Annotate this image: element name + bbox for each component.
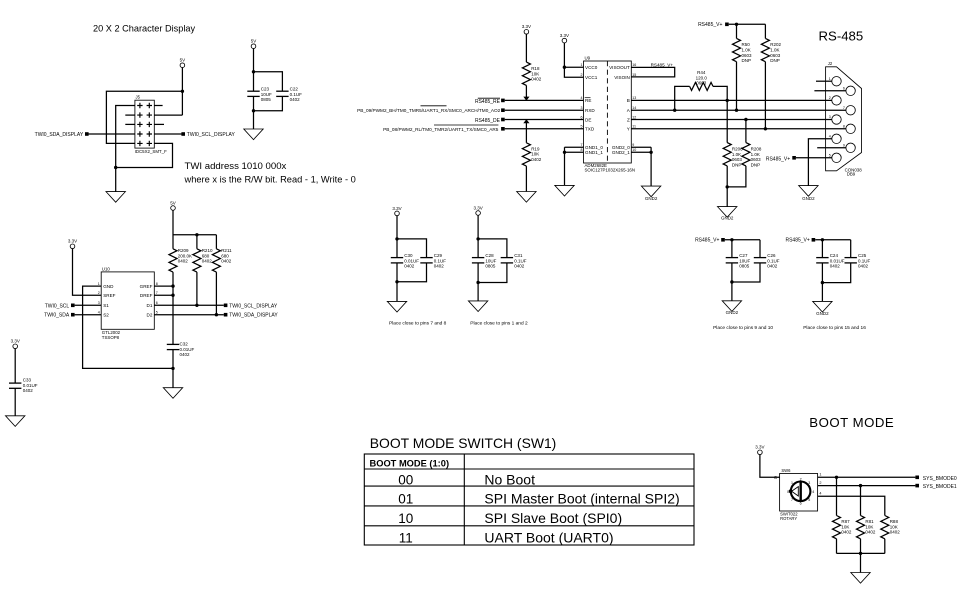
ground GND2 (DB9 pin4) xyxy=(799,186,818,201)
junction GND1 xyxy=(563,151,566,154)
svg-text:3.3V: 3.3V xyxy=(755,445,764,450)
wire RXD row xyxy=(505,109,584,111)
svg-text:R210: R210 xyxy=(202,248,213,253)
svg-text:J2: J2 xyxy=(828,61,833,66)
svg-text:0805: 0805 xyxy=(739,264,750,269)
svg-text:RS485_V+: RS485_V+ xyxy=(766,156,790,162)
capacitor C28 10UF 0805 xyxy=(472,253,497,269)
svg-text:4: 4 xyxy=(819,492,821,496)
svg-text:7: 7 xyxy=(156,291,158,295)
svg-text:10K: 10K xyxy=(531,71,539,76)
svg-text:R44: R44 xyxy=(697,70,706,75)
svg-text:GND2: GND2 xyxy=(721,216,734,221)
node RS485_DE xyxy=(475,118,505,125)
node TWI0_SCL_DISPLAY (U10) xyxy=(224,303,278,309)
svg-text:20 X 2 Character Display: 20 X 2 Character Display xyxy=(93,24,196,34)
wire B row to DB9 pin2 xyxy=(631,99,832,101)
junction R81/pin2 xyxy=(859,484,862,487)
IC U10 GTL2002 TSSOP8 xyxy=(98,266,158,340)
wire 3.3V to switch C pin xyxy=(760,455,780,478)
wire C23 bottom xyxy=(253,96,255,129)
svg-text:4: 4 xyxy=(829,135,831,139)
junction arrow R18/RE xyxy=(523,97,529,101)
wire D2 to TWI0_SDA_DISPLAY xyxy=(154,314,224,316)
svg-text:GND2: GND2 xyxy=(645,196,658,201)
junction 5V node xyxy=(181,90,184,93)
node RS485_V+ (DB9 pin5) xyxy=(766,156,796,162)
ground (C28/C31) xyxy=(468,301,487,312)
resistor R208 1.0K 0603 DNP xyxy=(742,143,762,168)
ground GND2 (C24/C25) xyxy=(813,301,832,315)
svg-text:DE: DE xyxy=(585,117,591,122)
svg-text:U9: U9 xyxy=(585,56,591,61)
wire J5 pin2 stub xyxy=(154,105,162,107)
svg-text:0402: 0402 xyxy=(290,97,301,102)
junction bottom bus xyxy=(859,552,862,555)
wire C28 bottom to ground xyxy=(477,263,479,301)
switch SW6 rotary SWIT022 xyxy=(774,468,822,521)
svg-text:1: 1 xyxy=(829,77,831,81)
wire Y row to DB9 pin8 xyxy=(631,128,846,130)
resistor R211 680 0402 xyxy=(212,248,232,272)
svg-text:2: 2 xyxy=(800,478,802,482)
junction gnd rail xyxy=(114,166,117,169)
wire 5V left branch xyxy=(106,91,182,143)
svg-text:0.01UF: 0.01UF xyxy=(180,347,195,352)
svg-text:PB_08/PWM2_RL/TM0_TMR2/UART1_T: PB_08/PWM2_RL/TM0_TMR2/UART1_TX/SMC0_AR5 xyxy=(383,127,499,132)
capacitor C32 0.01UF 0402 xyxy=(167,342,195,358)
wire VISOOUT/VISOIN loop RS485_V+ xyxy=(631,67,674,77)
svg-text:10UF: 10UF xyxy=(739,258,750,263)
wire RE row xyxy=(505,99,584,101)
ground GND2 (R206/R208) xyxy=(718,207,737,221)
svg-text:VISOIN: VISOIN xyxy=(614,75,630,80)
svg-text:SW6: SW6 xyxy=(781,468,791,473)
junction C30 top xyxy=(395,237,398,240)
wire V+ to caps xyxy=(725,240,760,258)
svg-text:TXD: TXD xyxy=(585,127,595,132)
node SYS_BMODE0 xyxy=(915,476,957,482)
svg-text:10K: 10K xyxy=(841,524,849,529)
svg-text:C29: C29 xyxy=(434,253,443,258)
wire Z to R208 xyxy=(745,120,747,143)
wire C27 bottom to ground xyxy=(731,263,733,301)
svg-text:RS485_DE: RS485_DE xyxy=(475,118,501,124)
wire GND2 pins to ground xyxy=(631,147,651,186)
ground (C33) xyxy=(6,416,25,427)
svg-text:J5: J5 xyxy=(136,95,141,100)
node RS485_V+ (C27/C26) xyxy=(695,238,725,244)
node TWI0_SCL_DISPLAY xyxy=(181,132,235,138)
svg-text:0402: 0402 xyxy=(404,264,415,269)
power 5V (C23/C22) xyxy=(251,39,257,49)
wire to C31 xyxy=(478,239,507,258)
power 3.3V (C30/C29) xyxy=(392,206,401,216)
svg-text:R81: R81 xyxy=(865,519,874,524)
svg-text:R208: R208 xyxy=(751,147,762,152)
connector J2 CON038 DB9 xyxy=(826,61,863,176)
svg-text:5: 5 xyxy=(808,498,810,502)
junction R44/B xyxy=(726,99,729,102)
svg-text:10UF: 10UF xyxy=(485,258,496,263)
power 5V (pullups) xyxy=(170,200,176,210)
wire 5V to caps xyxy=(253,49,255,92)
svg-text:C24: C24 xyxy=(830,253,839,258)
wire J5 pin10 to gnd rail xyxy=(116,143,173,167)
svg-text:ROTARY: ROTARY xyxy=(780,516,797,521)
wire C22 bottom xyxy=(254,96,283,110)
svg-text:6: 6 xyxy=(156,301,158,305)
svg-text:5V: 5V xyxy=(180,58,186,63)
wire C29 bottom xyxy=(397,263,427,282)
svg-text:10K: 10K xyxy=(890,524,898,529)
svg-text:RS485_V+: RS485_V+ xyxy=(695,238,719,244)
wire J5 pin1 to gnd rail xyxy=(116,106,135,168)
junction R87/pin1 xyxy=(835,476,838,479)
junction C28 top xyxy=(476,237,479,240)
svg-text:6: 6 xyxy=(843,87,845,91)
svg-text:BOOT MODE SWITCH (SW1): BOOT MODE SWITCH (SW1) xyxy=(370,435,557,451)
svg-text:C33: C33 xyxy=(23,378,32,383)
svg-text:0402: 0402 xyxy=(202,259,213,264)
wire R210 bottom xyxy=(196,272,198,305)
wire GND1 pins to ground xyxy=(565,147,584,185)
node PB_09 net xyxy=(357,106,505,113)
svg-text:R88: R88 xyxy=(890,519,899,524)
capacitor C27 10UF 0805 xyxy=(726,253,751,269)
junction C27 bottom xyxy=(730,280,733,283)
svg-text:where x is the R/W bit. Read -: where x is the R/W bit. Read - 1, Write … xyxy=(184,175,356,185)
wire V+ to caps xyxy=(815,240,851,258)
ground (C23/C22) xyxy=(244,129,263,140)
svg-text:3.3V: 3.3V xyxy=(473,205,482,210)
svg-text:TWI0_SCL_DISPLAY: TWI0_SCL_DISPLAY xyxy=(229,303,278,309)
wire U10 GND loop to ground xyxy=(83,286,173,368)
svg-text:1.0K: 1.0K xyxy=(751,152,760,157)
svg-text:PB_09/PWM2_BH/TM0_TMR5/UART1_R: PB_09/PWM2_BH/TM0_TMR5/UART1_RX/SMC0_ARC… xyxy=(357,108,501,113)
svg-text:5V: 5V xyxy=(170,200,176,205)
wire J5 pin8 to TWI0_SCL_DISPLAY xyxy=(154,133,181,135)
connector J5 IDC5X2_SMT_F xyxy=(135,95,168,154)
svg-text:D2: D2 xyxy=(147,313,153,318)
junction DREF xyxy=(171,294,174,297)
svg-text:1.0K: 1.0K xyxy=(770,48,779,53)
svg-text:R19: R19 xyxy=(531,146,540,151)
junction C27 top xyxy=(730,238,733,241)
svg-text:Y: Y xyxy=(627,127,630,132)
svg-text:0402: 0402 xyxy=(434,264,445,269)
power 5V (J5) xyxy=(180,58,186,68)
svg-text:6: 6 xyxy=(800,502,802,506)
svg-text:R206: R206 xyxy=(732,147,743,152)
junction R210/D1 xyxy=(195,304,198,307)
svg-text:1: 1 xyxy=(98,282,100,286)
svg-text:DNP: DNP xyxy=(732,163,742,168)
svg-text:12: 12 xyxy=(632,115,636,119)
wire R209 to GREF/DREF/C32 xyxy=(172,272,174,344)
svg-text:0603: 0603 xyxy=(742,53,753,58)
wire pin1 to R87 xyxy=(836,477,838,515)
svg-text:GND2: GND2 xyxy=(802,196,815,201)
node PB_08 net xyxy=(383,125,505,132)
ground GND2 (C27/C26) xyxy=(722,301,741,315)
svg-text:7: 7 xyxy=(843,106,845,110)
power 3.3V (U10 SREF) xyxy=(68,239,77,249)
wire TWI0_SCL to S1 xyxy=(75,304,102,306)
junction C30 bottom xyxy=(395,280,398,283)
wire D1 to TWI0_SCL_DISPLAY xyxy=(154,304,224,306)
junction C28 bottom xyxy=(476,281,479,284)
svg-text:0603: 0603 xyxy=(751,157,762,162)
svg-text:Place close to pins 1 and 2: Place close to pins 1 and 2 xyxy=(470,321,528,327)
svg-text:DREF: DREF xyxy=(140,293,153,298)
svg-text:9: 9 xyxy=(843,144,845,148)
svg-text:TWI0_SDA_DISPLAY: TWI0_SDA_DISPLAY xyxy=(35,132,84,138)
svg-text:3: 3 xyxy=(829,115,831,119)
svg-text:7: 7 xyxy=(791,498,793,502)
wire pin2 to R81 xyxy=(860,486,862,516)
wire C25 bottom xyxy=(822,263,850,283)
svg-text:C27: C27 xyxy=(739,253,748,258)
power 3.3V (R18) xyxy=(522,24,531,34)
svg-text:4: 4 xyxy=(581,96,583,100)
svg-text:SPI Slave Boot (SPI0): SPI Slave Boot (SPI0) xyxy=(484,510,622,526)
wire R50 to A row xyxy=(736,62,738,110)
svg-text:0: 0 xyxy=(787,490,789,494)
junction GND2 xyxy=(649,151,652,154)
svg-text:RXD: RXD xyxy=(585,108,595,113)
node TWI0_SCL xyxy=(45,303,75,309)
svg-text:3.3V: 3.3V xyxy=(392,206,401,211)
junction V+ rail xyxy=(735,23,738,26)
svg-text:C23: C23 xyxy=(261,87,270,92)
svg-text:RE: RE xyxy=(585,98,591,103)
wire C30 bottom to ground xyxy=(396,263,398,302)
svg-text:16: 16 xyxy=(632,63,636,67)
svg-text:0402: 0402 xyxy=(890,530,901,535)
svg-text:0402: 0402 xyxy=(841,530,852,535)
IC U9 ADM2682E isolated RS-485 transceiver xyxy=(581,56,637,173)
wire DE row xyxy=(505,119,584,121)
capacitor C31 0.1UF 0402 xyxy=(501,253,527,269)
svg-text:10K: 10K xyxy=(531,152,539,157)
svg-text:TWI0_SCL: TWI0_SCL xyxy=(45,303,70,309)
resistor R210 680 0402 xyxy=(193,248,213,272)
wire R211 bottom xyxy=(215,272,217,315)
junction arrow R19/DE xyxy=(523,119,529,123)
svg-text:0.01UF: 0.01UF xyxy=(830,258,845,263)
svg-text:B: B xyxy=(627,98,630,103)
svg-text:0402: 0402 xyxy=(767,264,778,269)
node TWI0_SDA_DISPLAY xyxy=(35,132,89,138)
ground (U10) xyxy=(163,388,182,399)
wire RS485_V+ to pin5 xyxy=(796,157,832,159)
wire 3.3V to C30 xyxy=(396,216,398,258)
node RS485_V+ (C24/C25) xyxy=(785,238,815,244)
svg-text:8: 8 xyxy=(156,282,158,286)
svg-text:GREF: GREF xyxy=(140,284,153,289)
junction GREF xyxy=(171,284,174,287)
svg-text:0402: 0402 xyxy=(531,77,542,82)
wire DE to R19 xyxy=(525,120,527,143)
capacitor C24 0.01UF 0402 xyxy=(816,253,845,269)
svg-text:DNP: DNP xyxy=(751,163,761,168)
svg-text:7: 7 xyxy=(581,143,583,147)
svg-text:S2: S2 xyxy=(103,313,109,318)
svg-text:VCC0: VCC0 xyxy=(585,65,598,70)
svg-text:TWI address 1010 000x: TWI address 1010 000x xyxy=(185,161,287,172)
svg-text:Place close to pins 15 and 16: Place close to pins 15 and 16 xyxy=(803,325,866,331)
svg-text:TWI0_SDA_DISPLAY: TWI0_SDA_DISPLAY xyxy=(229,313,278,319)
wire J5 pin3 stub xyxy=(125,114,135,116)
svg-text:0805: 0805 xyxy=(261,97,272,102)
svg-text:Place close to pins 9 and 10: Place close to pins 9 and 10 xyxy=(713,325,773,331)
resistor R18 10K 0402 xyxy=(522,62,541,85)
svg-text:2: 2 xyxy=(819,481,821,485)
svg-text:8: 8 xyxy=(843,125,845,129)
svg-text:0402: 0402 xyxy=(531,157,542,162)
svg-text:BOOT MODE: BOOT MODE xyxy=(809,415,894,430)
svg-text:SYS_BMODE1: SYS_BMODE1 xyxy=(923,484,957,490)
junction R44/A xyxy=(673,109,676,112)
svg-text:GND2: GND2 xyxy=(816,311,829,316)
svg-text:Place close to pins 7 and 8: Place close to pins 7 and 8 xyxy=(389,321,447,327)
power 3.3V (SW) xyxy=(755,445,764,455)
svg-text:R50: R50 xyxy=(742,42,751,47)
svg-text:DNP: DNP xyxy=(742,58,752,63)
wire J5 pin6 stub xyxy=(154,123,164,125)
junction R202/Y xyxy=(764,127,767,130)
svg-text:01: 01 xyxy=(398,492,413,507)
svg-text:R209: R209 xyxy=(178,248,189,253)
wire J5 pin7 to TWI0_SDA_DISPLAY xyxy=(88,133,134,135)
svg-text:UART Boot (UART0): UART Boot (UART0) xyxy=(484,530,613,546)
svg-text:Z: Z xyxy=(627,117,630,122)
svg-text:10K: 10K xyxy=(865,524,873,529)
svg-text:No Boot: No Boot xyxy=(484,471,535,487)
junction VCC0 xyxy=(563,66,566,69)
svg-text:0603: 0603 xyxy=(732,157,743,162)
svg-text:1: 1 xyxy=(819,473,821,477)
svg-text:10: 10 xyxy=(398,511,413,526)
wire R211 top xyxy=(215,235,217,249)
svg-text:1: 1 xyxy=(581,63,583,67)
svg-text:3.3V: 3.3V xyxy=(560,33,569,38)
wire DB9 pin6 stub xyxy=(814,90,846,92)
resistor R206 1.0K 0603 DNP xyxy=(723,143,743,168)
svg-text:4: 4 xyxy=(812,490,814,494)
wire 5V pullup bus xyxy=(172,210,174,249)
svg-text:11: 11 xyxy=(632,125,636,129)
wire R210 top xyxy=(196,235,198,249)
node SYS_BMODE1 xyxy=(915,484,957,490)
svg-text:680: 680 xyxy=(221,253,229,258)
wire C24 bottom to ground xyxy=(821,263,823,302)
svg-text:0402: 0402 xyxy=(865,530,876,535)
svg-text:120.0: 120.0 xyxy=(696,75,708,80)
svg-text:0402: 0402 xyxy=(178,259,189,264)
ground (boot resistors) xyxy=(851,573,870,584)
svg-text:2: 2 xyxy=(98,291,100,295)
svg-text:C31: C31 xyxy=(514,253,523,258)
svg-text:13: 13 xyxy=(632,96,636,100)
wire TWI0_SDA to S2 xyxy=(75,314,102,316)
svg-text:3: 3 xyxy=(98,301,100,305)
svg-text:5V: 5V xyxy=(251,39,257,44)
svg-text:DB9: DB9 xyxy=(847,171,856,176)
resistor R202 1.0K 0603 DNP xyxy=(761,38,781,63)
svg-text:4: 4 xyxy=(98,311,100,315)
svg-text:10: 10 xyxy=(632,148,636,152)
node RS485_V+ rail xyxy=(698,22,729,28)
table boot modes xyxy=(364,454,694,546)
junction R208/Z xyxy=(744,118,747,121)
wire GREF xyxy=(154,285,173,287)
svg-text:0.1UF: 0.1UF xyxy=(767,258,780,263)
svg-text:1: 1 xyxy=(791,481,793,485)
svg-text:U10: U10 xyxy=(102,266,111,271)
wire C32 bottom to ground xyxy=(172,350,174,388)
junction C24 top xyxy=(821,238,824,241)
ground (J5) xyxy=(106,192,125,203)
svg-text:0603: 0603 xyxy=(770,53,781,58)
svg-text:2: 2 xyxy=(829,96,831,100)
ground GND2 (U9) xyxy=(641,186,660,201)
svg-text:C30: C30 xyxy=(404,253,413,258)
svg-text:C25: C25 xyxy=(858,253,867,258)
svg-text:680: 680 xyxy=(202,253,210,258)
svg-text:3.3V: 3.3V xyxy=(522,24,531,29)
junction pullup bus xyxy=(195,233,198,236)
svg-text:0.1UF: 0.1UF xyxy=(858,258,871,263)
svg-text:SYS_BMODE0: SYS_BMODE0 xyxy=(923,476,957,482)
wire 3.3V to VCC0/VCC1 xyxy=(564,43,583,77)
svg-text:0402: 0402 xyxy=(221,259,232,264)
junction C32/GND loop xyxy=(171,367,174,370)
svg-text:C22: C22 xyxy=(290,87,299,92)
svg-text:VISOOUT: VISOOUT xyxy=(609,65,630,70)
svg-text:RS485_RE: RS485_RE xyxy=(475,99,501,105)
svg-text:9: 9 xyxy=(632,143,634,147)
svg-text:SREF: SREF xyxy=(103,293,115,298)
svg-text:S1: S1 xyxy=(103,303,109,308)
resistor R209 200.0K 0402 xyxy=(169,248,192,272)
power 3.3V (C28/C31) xyxy=(473,205,482,215)
svg-text:3: 3 xyxy=(808,481,810,485)
svg-text:VCC1: VCC1 xyxy=(585,75,598,80)
ground (U9 GND1) xyxy=(555,185,574,196)
wire J5 pin5 stub xyxy=(125,123,135,125)
wire SW pin2 to SYS_BMODE1 xyxy=(818,485,916,487)
svg-text:8: 8 xyxy=(581,148,583,152)
wire R19 to ground xyxy=(525,166,527,191)
wire 3.3V to C28 xyxy=(477,215,479,257)
svg-text:0.1UF: 0.1UF xyxy=(434,258,447,263)
svg-text:TWI0_SCL_DISPLAY: TWI0_SCL_DISPLAY xyxy=(187,132,236,138)
wire R18 to RE net xyxy=(525,85,527,100)
resistor R44 120.0 0603 termination xyxy=(690,70,713,90)
svg-text:5: 5 xyxy=(581,125,583,129)
resistor R50 1.0K 0603 DNP xyxy=(733,38,753,63)
wire TXD row xyxy=(505,128,584,130)
svg-text:0.1UF: 0.1UF xyxy=(514,258,527,263)
svg-text:0402: 0402 xyxy=(858,264,869,269)
junction R50/A xyxy=(735,109,738,112)
svg-text:10UF: 10UF xyxy=(261,92,272,97)
power 3.3V (C33) xyxy=(11,339,20,349)
capacitor C23 10UF 0805 xyxy=(247,87,272,103)
wire C31 bottom xyxy=(478,263,507,283)
